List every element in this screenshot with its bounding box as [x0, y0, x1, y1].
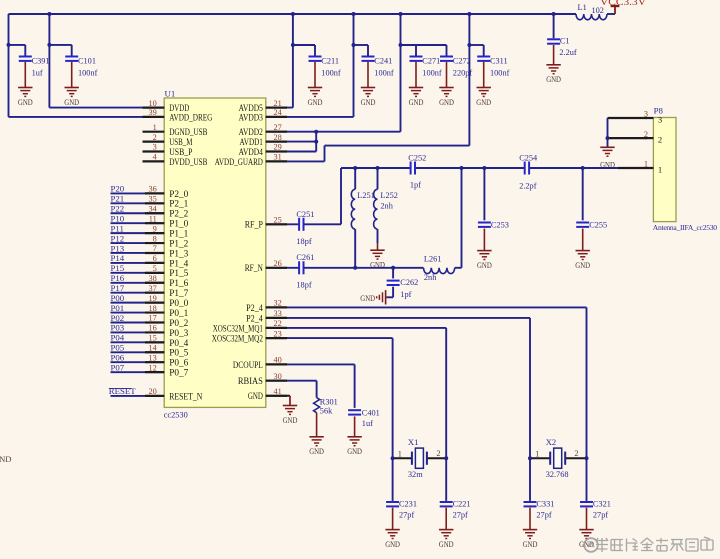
- svg-text:15: 15: [149, 334, 157, 343]
- svg-text:GND: GND: [248, 391, 263, 401]
- svg-text:C254: C254: [519, 154, 538, 163]
- svg-text:24: 24: [274, 108, 283, 117]
- svg-text:C311: C311: [490, 57, 508, 66]
- svg-text:P03: P03: [111, 323, 125, 333]
- svg-text:100nf: 100nf: [490, 68, 510, 77]
- svg-text:32m: 32m: [408, 470, 423, 479]
- svg-text:C253: C253: [491, 220, 509, 229]
- svg-text:C321: C321: [593, 500, 611, 509]
- svg-text:2nh: 2nh: [424, 273, 437, 282]
- svg-text:C391: C391: [32, 57, 50, 66]
- svg-text:1pf: 1pf: [400, 290, 411, 299]
- svg-text:P0_5: P0_5: [169, 349, 188, 359]
- svg-text:C241: C241: [374, 57, 392, 66]
- svg-text:C255: C255: [589, 220, 607, 229]
- svg-text:21: 21: [274, 99, 282, 108]
- svg-text:C231: C231: [399, 500, 417, 509]
- svg-text:C251: C251: [296, 210, 314, 219]
- svg-text:27pf: 27pf: [593, 510, 608, 519]
- svg-text:GND: GND: [575, 260, 590, 270]
- svg-text:RESET: RESET: [109, 386, 137, 396]
- svg-text:102: 102: [592, 6, 604, 15]
- svg-text:P22: P22: [111, 204, 125, 214]
- svg-text:P10: P10: [111, 213, 125, 223]
- svg-text:25: 25: [274, 216, 282, 225]
- svg-text:U1: U1: [165, 89, 176, 99]
- svg-text:19: 19: [149, 294, 157, 303]
- svg-text:37: 37: [149, 284, 157, 293]
- svg-text:X2: X2: [546, 437, 557, 447]
- svg-text:R301: R301: [320, 397, 338, 406]
- svg-text:14: 14: [149, 343, 158, 352]
- svg-text:1uf: 1uf: [362, 419, 373, 428]
- svg-text:18pf: 18pf: [296, 237, 311, 246]
- svg-text:GND: GND: [385, 539, 400, 549]
- svg-text:X1: X1: [408, 437, 419, 447]
- svg-text:P0_3: P0_3: [169, 329, 188, 339]
- svg-text:P01: P01: [111, 303, 125, 313]
- svg-text:27: 27: [274, 123, 282, 132]
- svg-text:P14: P14: [111, 253, 125, 263]
- svg-text:100nf: 100nf: [321, 68, 341, 77]
- svg-text:RF_N: RF_N: [245, 263, 264, 273]
- svg-text:P1_1: P1_1: [169, 230, 188, 240]
- svg-text:27pf: 27pf: [536, 510, 551, 519]
- svg-text:GND: GND: [283, 415, 298, 425]
- svg-text:34: 34: [149, 204, 158, 213]
- svg-text:C271: C271: [422, 57, 440, 66]
- svg-text:7: 7: [153, 244, 157, 253]
- svg-text:22: 22: [274, 319, 282, 328]
- svg-text:3: 3: [658, 115, 662, 125]
- svg-text:P15: P15: [111, 263, 125, 273]
- svg-text:P1_5: P1_5: [169, 269, 188, 279]
- svg-text:USB_P: USB_P: [169, 147, 192, 157]
- svg-text:P1_7: P1_7: [169, 289, 188, 299]
- svg-text:8: 8: [153, 234, 157, 243]
- svg-text:VCC3.3V: VCC3.3V: [600, 0, 646, 7]
- svg-text:AVDD_GUARD: AVDD_GUARD: [215, 157, 264, 167]
- svg-text:P07: P07: [111, 362, 125, 372]
- svg-text:32.768: 32.768: [546, 470, 569, 479]
- svg-text:38: 38: [149, 274, 157, 283]
- svg-text:P2_0: P2_0: [169, 190, 188, 200]
- svg-text:GND: GND: [439, 97, 454, 107]
- svg-text:P00: P00: [111, 293, 125, 303]
- svg-text:RESET_N: RESET_N: [169, 391, 203, 401]
- svg-text:P13: P13: [111, 243, 125, 253]
- svg-text:3: 3: [644, 110, 648, 119]
- svg-text:P21: P21: [111, 194, 125, 204]
- svg-text:P02: P02: [111, 313, 125, 323]
- svg-text:P0_7: P0_7: [169, 369, 188, 379]
- svg-text:2: 2: [644, 130, 648, 139]
- svg-text:36: 36: [149, 185, 157, 194]
- svg-text:P20: P20: [111, 184, 125, 194]
- svg-text:56k: 56k: [320, 407, 333, 416]
- svg-text:C272: C272: [453, 57, 471, 66]
- svg-text:C252: C252: [408, 153, 426, 162]
- svg-text:P05: P05: [111, 343, 125, 353]
- svg-text:1: 1: [153, 123, 157, 132]
- svg-text:100nf: 100nf: [78, 68, 98, 77]
- svg-text:P16: P16: [111, 273, 125, 283]
- svg-text:P0_1: P0_1: [169, 309, 188, 319]
- svg-text:9: 9: [153, 224, 157, 233]
- svg-text:29: 29: [274, 143, 282, 152]
- svg-text:32: 32: [274, 299, 282, 308]
- svg-text:GND: GND: [64, 97, 79, 107]
- svg-text:XOSC32M_MQ1: XOSC32M_MQ1: [213, 323, 263, 333]
- svg-text:GND: GND: [439, 539, 454, 549]
- svg-text:RBIAS: RBIAS: [238, 376, 263, 386]
- svg-text:31: 31: [274, 153, 282, 162]
- svg-text:P1_3: P1_3: [169, 249, 188, 259]
- svg-text:XOSC32M_MQ2: XOSC32M_MQ2: [212, 334, 263, 344]
- svg-text:P04: P04: [111, 333, 125, 343]
- svg-text:P1_4: P1_4: [169, 259, 188, 269]
- svg-text:C331: C331: [536, 500, 554, 509]
- svg-text:2: 2: [658, 135, 662, 145]
- svg-text:1: 1: [398, 449, 402, 458]
- svg-text:GND: GND: [361, 97, 376, 107]
- svg-text:P2_4: P2_4: [246, 303, 263, 313]
- svg-text:L252: L252: [380, 191, 398, 200]
- svg-text:10: 10: [149, 99, 157, 108]
- svg-text:AVDD4: AVDD4: [239, 147, 264, 157]
- svg-text:P06: P06: [111, 353, 125, 363]
- svg-text:3: 3: [153, 143, 157, 152]
- svg-text:P1_0: P1_0: [169, 220, 188, 230]
- svg-text:P0_6: P0_6: [169, 359, 188, 369]
- svg-text:C261: C261: [296, 253, 314, 262]
- svg-text:GND: GND: [309, 446, 324, 456]
- svg-text:GND: GND: [18, 97, 33, 107]
- svg-text:1uf: 1uf: [32, 68, 43, 77]
- svg-text:P11: P11: [111, 223, 124, 233]
- svg-text:L261: L261: [424, 255, 442, 264]
- svg-text:AVDD_DREG: AVDD_DREG: [169, 112, 213, 122]
- svg-text:C211: C211: [321, 57, 339, 66]
- svg-text:P1_6: P1_6: [169, 279, 188, 289]
- svg-text:1pf: 1pf: [410, 180, 421, 189]
- svg-text:2nh: 2nh: [380, 202, 393, 211]
- svg-text:41: 41: [274, 387, 282, 396]
- svg-text:P2_4: P2_4: [246, 313, 263, 323]
- svg-text:P0_2: P0_2: [169, 319, 188, 329]
- svg-text:28: 28: [274, 133, 282, 142]
- svg-text:35: 35: [149, 195, 157, 204]
- svg-text:13: 13: [149, 353, 157, 362]
- svg-text:GND: GND: [308, 97, 323, 107]
- svg-text:Antenna_IIFA_cc2530: Antenna_IIFA_cc2530: [653, 223, 717, 232]
- svg-text:GND: GND: [347, 446, 362, 456]
- svg-text:33: 33: [274, 309, 282, 318]
- svg-text:20: 20: [149, 387, 157, 396]
- svg-text:USB_M: USB_M: [169, 137, 192, 147]
- svg-text:GND: GND: [360, 293, 375, 303]
- svg-text:P0_0: P0_0: [169, 299, 188, 309]
- svg-text:16: 16: [149, 324, 157, 333]
- svg-text:C221: C221: [453, 500, 471, 509]
- svg-text:30: 30: [274, 372, 282, 381]
- svg-text:GND: GND: [523, 539, 538, 549]
- svg-text:220pf: 220pf: [453, 68, 473, 77]
- svg-text:P12: P12: [111, 233, 125, 243]
- svg-text:6: 6: [153, 254, 157, 263]
- svg-text:cc2530: cc2530: [164, 410, 188, 419]
- svg-text:P17: P17: [111, 283, 125, 293]
- svg-text:100nf: 100nf: [422, 68, 442, 77]
- svg-text:L1: L1: [578, 3, 587, 12]
- svg-text:5: 5: [153, 264, 157, 273]
- svg-text:C401: C401: [362, 408, 380, 417]
- svg-text:26: 26: [274, 259, 282, 268]
- svg-text:23: 23: [274, 329, 282, 338]
- svg-text:L251: L251: [357, 191, 375, 200]
- svg-text:GND: GND: [600, 159, 615, 169]
- svg-text:100nf: 100nf: [374, 68, 394, 77]
- svg-text:P0_4: P0_4: [169, 339, 188, 349]
- svg-text:C1: C1: [560, 37, 570, 46]
- svg-text:17: 17: [149, 314, 157, 323]
- svg-text:C101: C101: [78, 57, 96, 66]
- svg-text:GND: GND: [477, 260, 492, 270]
- svg-text:12: 12: [149, 363, 157, 372]
- svg-text:DGND_USB: DGND_USB: [169, 127, 207, 137]
- svg-text:39: 39: [149, 108, 157, 117]
- svg-text:AVDD1: AVDD1: [240, 137, 263, 147]
- svg-text:2.2pf: 2.2pf: [519, 182, 537, 191]
- svg-text:GND: GND: [546, 74, 561, 84]
- svg-text:18pf: 18pf: [296, 280, 311, 289]
- svg-text:1: 1: [644, 160, 648, 169]
- svg-text:RF_P: RF_P: [245, 220, 263, 230]
- svg-text:C262: C262: [400, 278, 418, 287]
- svg-text:2.2uf: 2.2uf: [559, 48, 577, 57]
- svg-text:P2_1: P2_1: [169, 200, 188, 210]
- svg-text:P1_2: P1_2: [169, 239, 188, 249]
- svg-text:11: 11: [149, 214, 157, 223]
- svg-text:AVDD3: AVDD3: [239, 112, 264, 122]
- svg-text:2: 2: [436, 449, 440, 458]
- svg-text:27pf: 27pf: [453, 510, 468, 519]
- svg-text:2: 2: [574, 449, 578, 458]
- svg-text:2: 2: [153, 133, 157, 142]
- svg-text:GND: GND: [0, 454, 11, 464]
- svg-text:GND: GND: [476, 97, 491, 107]
- svg-text:18: 18: [149, 304, 157, 313]
- svg-text:DCOUPL: DCOUPL: [233, 360, 263, 370]
- svg-text:GND: GND: [409, 97, 424, 107]
- svg-text:40: 40: [274, 356, 282, 365]
- svg-text:1: 1: [658, 165, 662, 175]
- svg-text:AVDD2: AVDD2: [239, 127, 263, 137]
- svg-text:DVDD_USB: DVDD_USB: [169, 157, 207, 167]
- svg-text:P2_2: P2_2: [169, 210, 188, 220]
- svg-text:27pf: 27pf: [399, 510, 414, 519]
- svg-text:1: 1: [535, 449, 539, 458]
